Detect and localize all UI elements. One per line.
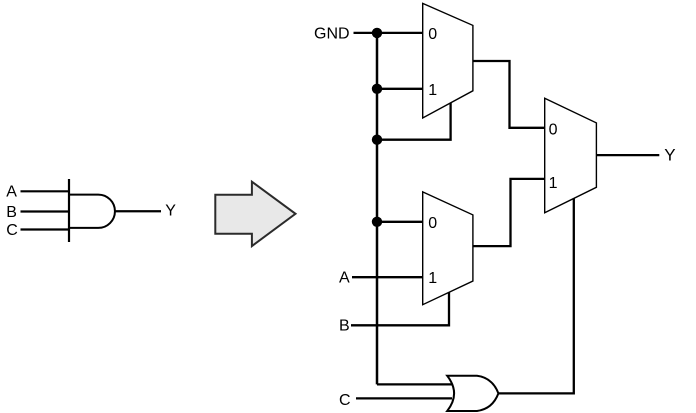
svg-text:Y: Y xyxy=(664,146,675,165)
wire mux U1 output to mux U3 input 0 xyxy=(473,61,545,128)
svg-text:B: B xyxy=(6,204,17,221)
AND gate input bus vertical line xyxy=(68,179,70,242)
junction dot bus/mux U2 input 0 xyxy=(372,217,382,227)
junction dot bus/mux U1 select xyxy=(372,135,382,145)
svg-text:0: 0 xyxy=(428,26,437,43)
svg-text:Y: Y xyxy=(165,203,176,220)
svg-text:0: 0 xyxy=(428,215,437,232)
svg-text:A: A xyxy=(6,184,17,201)
svg-text:0: 0 xyxy=(549,121,558,138)
svg-text:C: C xyxy=(6,222,18,239)
wire bus to mux U1 input 1 xyxy=(377,88,423,90)
wire GND to mux U1 input 0 xyxy=(354,32,423,34)
junction dot GND/bus xyxy=(372,28,382,38)
transformation arrow xyxy=(215,182,295,246)
svg-text:1: 1 xyxy=(549,175,558,192)
svg-text:1: 1 xyxy=(428,82,437,99)
mux U3 (output 2:1 mux) xyxy=(545,98,597,213)
wire A to AND gate xyxy=(21,190,70,192)
wire B to AND gate xyxy=(21,210,70,212)
wire C to AND gate xyxy=(21,228,70,230)
wire C to OR gate bottom input xyxy=(356,397,452,399)
wire AND gate output to Y xyxy=(115,210,161,212)
wire mux U2 output to mux U3 input 1 xyxy=(473,179,545,246)
wire B to mux U2 select xyxy=(351,292,449,325)
GND vertical bus xyxy=(376,33,379,385)
wire bus to OR gate top input xyxy=(377,383,453,385)
svg-text:1: 1 xyxy=(428,270,437,287)
wire bus to mux U1 select xyxy=(377,103,451,140)
mux U1 (top 2:1 mux) xyxy=(423,3,473,118)
svg-text:A: A xyxy=(339,269,350,286)
wire A to mux U2 input 1 xyxy=(352,276,423,278)
OR gate G2 xyxy=(447,376,498,411)
mux U2 (middle 2:1 mux) xyxy=(423,192,473,305)
wire mux U3 output to Y xyxy=(596,154,659,156)
AND gate G1 xyxy=(69,195,115,228)
svg-text:C: C xyxy=(339,392,351,409)
junction dot bus/mux U1 input 1 xyxy=(372,84,382,94)
svg-text:B: B xyxy=(339,318,350,335)
wire bus to mux U2 input 0 xyxy=(377,221,423,223)
svg-text:GND: GND xyxy=(314,26,350,43)
wire OR gate output to mux U3 select xyxy=(498,198,573,393)
